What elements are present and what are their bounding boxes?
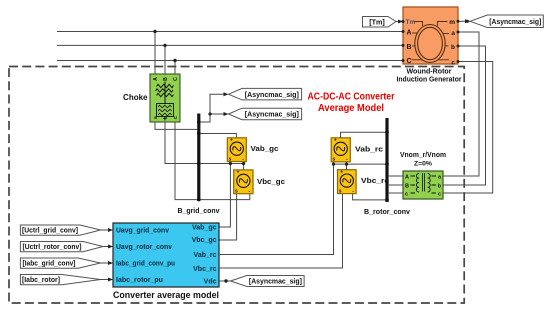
svg-text:s: s	[333, 157, 336, 163]
bus bar B_rotor_conv	[385, 118, 388, 202]
svg-text:[Asyncmac_sig]: [Asyncmac_sig]	[245, 92, 299, 99]
node junction A	[153, 30, 156, 33]
arrowhead into goto 1	[224, 92, 229, 96]
svg-text:+: +	[334, 138, 337, 144]
generator port dots	[402, 20, 405, 23]
node junction tag branch	[208, 112, 211, 115]
svg-text:B: B	[163, 77, 169, 81]
wire choke b to grid bus	[165, 122, 198, 164]
svg-text:AC-DC-AC Converter: AC-DC-AC Converter	[308, 91, 395, 103]
generator block wound-rotor induction generator	[403, 7, 458, 66]
wire transformer c to generator c	[443, 62, 493, 194]
svg-text:Vab_rc: Vab_rc	[355, 145, 383, 154]
wire rotor bus to transformer A	[388, 175, 403, 177]
wire rotor bus to transformer C	[388, 192, 403, 194]
wire branch to second goto	[210, 113, 226, 115]
controlled voltage source Vab_gc	[227, 138, 246, 163]
wire Vab_rc plus to rotor bus	[341, 132, 387, 138]
bus bar B_grid_conv	[197, 114, 200, 202]
goto tag Asyncmac_sig top	[470, 15, 543, 28]
wire stator phase B horizontal	[57, 44, 403, 46]
svg-text:A: A	[405, 175, 409, 181]
svg-text:a: a	[451, 30, 455, 37]
svg-text:[Uctrl_rotor_conv]: [Uctrl_rotor_conv]	[23, 244, 82, 251]
svg-text:Vnom_r/Vnom: Vnom_r/Vnom	[400, 150, 446, 159]
from tag Iabc_rotor	[20, 275, 100, 285]
wire rotor bus phase b	[334, 163, 387, 165]
svg-text:Uavg_grid_conv: Uavg_grid_conv	[116, 228, 169, 235]
svg-text:[Tm]: [Tm]	[369, 17, 385, 26]
svg-text:B: B	[407, 44, 412, 51]
svg-text:[Iabc_grid_conv]: [Iabc_grid_conv]	[23, 261, 76, 268]
svg-text:c: c	[451, 59, 455, 66]
svg-text:m: m	[449, 19, 455, 26]
svg-text:Vab_gc: Vab_gc	[251, 144, 279, 153]
svg-text:Iabc_grid_conv_pu: Iabc_grid_conv_pu	[116, 261, 175, 268]
svg-text:Iabc_rotor_pu: Iabc_rotor_pu	[116, 277, 163, 284]
goto tag Asyncmac_sig upper	[229, 88, 302, 100]
wire Vab_gc minus to Vbc_gc plus	[243, 162, 245, 170]
wire grid bus to Vab_gc +	[199, 134, 236, 138]
wire choke c to grid bus	[175, 122, 198, 200]
dashed subsystem boundary box	[9, 67, 464, 304]
wire tag3 to block	[101, 262, 114, 264]
wire Vab_rc minus to Vbc_rc plus	[346, 162, 348, 170]
node junction C	[173, 59, 176, 62]
svg-text:s: s	[229, 156, 232, 162]
controlled voltage source Vbc_rc	[338, 170, 357, 195]
wire grid bus to goto tags	[198, 94, 226, 122]
wire drop to choke A	[154, 32, 156, 75]
wire blue Vab_rc to source s	[219, 162, 334, 255]
converter average model block	[113, 223, 219, 287]
choke block L1	[150, 74, 180, 122]
controlled voltage source Vbc_gc	[234, 170, 253, 195]
transformer block Vnom_r/Vnom	[403, 171, 443, 199]
node dots grid bus	[197, 132, 201, 136]
svg-text:Vab_rc: Vab_rc	[194, 252, 217, 259]
svg-text:Vab_gc: Vab_gc	[192, 225, 217, 232]
node dots phase b crossing	[229, 162, 232, 165]
svg-text:C: C	[407, 58, 412, 65]
svg-text:Vbc_gc: Vbc_gc	[257, 177, 285, 186]
wire stator phase A horizontal	[57, 31, 403, 33]
wire Vbc_gc s input	[219, 192, 237, 240]
svg-text:Choke: Choke	[123, 93, 148, 102]
svg-text:Vbc_rc: Vbc_rc	[361, 176, 389, 185]
node dots rotor phase b	[332, 163, 335, 166]
controlled voltage source Vab_rc	[331, 138, 350, 163]
wire generator m to goto	[458, 20, 470, 22]
svg-text:+: +	[230, 138, 233, 144]
wire Tm tag to generator	[396, 21, 403, 23]
svg-text:Converter average model: Converter average model	[113, 290, 219, 301]
wire Vab_gc s input	[219, 162, 230, 228]
from tag Tm	[363, 17, 397, 28]
wire tag4 to block	[101, 279, 114, 281]
svg-text:A: A	[407, 29, 412, 36]
svg-text:B: B	[405, 184, 409, 190]
svg-text:s: s	[235, 189, 238, 195]
wire transformer a to generator a	[443, 32, 479, 176]
svg-text:B_rotor_conv: B_rotor_conv	[364, 207, 411, 216]
svg-text:Vbc_rc: Vbc_rc	[193, 266, 216, 273]
from tag Uctrl_rotor_conv	[20, 242, 103, 252]
wire choke a to grid bus	[155, 122, 198, 129]
wire drop to choke B	[164, 45, 166, 74]
wire Vbc_gc minus to grid bus c	[199, 192, 250, 199]
from tag Iabc_grid_conv	[20, 258, 100, 268]
svg-text:c: c	[438, 192, 441, 198]
svg-text:Average Model: Average Model	[318, 102, 384, 114]
wire drop to choke C	[174, 61, 176, 75]
svg-text:Uavg_rotor_conv: Uavg_rotor_conv	[116, 244, 172, 251]
goto tag Asyncmac_sig lower	[229, 108, 302, 120]
wire Vdc to from tag	[219, 280, 231, 282]
svg-text:Induction Generator: Induction Generator	[397, 75, 462, 84]
arrowhead into goto 2	[224, 112, 229, 116]
wire tag1 to block	[101, 229, 114, 231]
from tag Uctrl_grid_conv	[20, 225, 100, 235]
svg-text:Tm: Tm	[406, 19, 416, 26]
svg-text:[Asyncmac_sig]: [Asyncmac_sig]	[489, 19, 541, 26]
wire rotor bus to transformer B	[388, 184, 403, 186]
svg-text:B_grid_conv: B_grid_conv	[178, 206, 221, 215]
wire transformer b to generator b	[443, 46, 486, 185]
svg-text:b: b	[451, 44, 455, 51]
svg-text:Z=0%: Z=0%	[414, 161, 432, 168]
node dots rotor bus	[385, 130, 389, 134]
svg-text:Vbc_gc: Vbc_gc	[192, 237, 217, 244]
node junction B	[163, 44, 166, 47]
from tag Asyncmac_sig bottom	[231, 276, 305, 287]
svg-text:[Uctrl_grid_conv]: [Uctrl_grid_conv]	[22, 228, 78, 235]
wire blue Vbc_rc to source s	[219, 194, 343, 268]
wire grid bus phase b to sources	[199, 163, 244, 165]
svg-text:C: C	[173, 77, 179, 81]
wire Vbc_rc minus to rotor bus c	[353, 194, 386, 200]
svg-text:Vdc: Vdc	[204, 279, 217, 286]
wire stator phase C horizontal	[57, 60, 403, 62]
svg-text:s: s	[339, 188, 342, 194]
svg-text:A: A	[153, 77, 159, 81]
wire tag2 to block	[103, 246, 113, 248]
svg-text:[Asyncmac_sig]: [Asyncmac_sig]	[249, 279, 302, 286]
svg-text:+: +	[237, 170, 240, 176]
svg-text:c: c	[405, 192, 408, 198]
svg-text:[Iabc_rotor]: [Iabc_rotor]	[22, 277, 60, 284]
svg-text:+: +	[340, 170, 343, 176]
svg-text:[Asyncmac_sig]: [Asyncmac_sig]	[245, 112, 299, 119]
